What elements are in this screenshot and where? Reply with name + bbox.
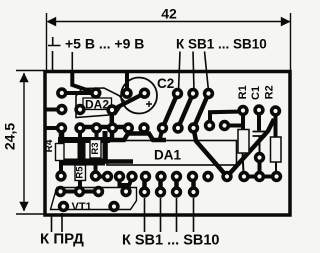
DA2 outline <box>76 88 125 118</box>
trace D2-D3 bar <box>96 175 108 179</box>
trace R2 bottom lead <box>275 162 277 172</box>
dimension 42 right arrowhead <box>281 17 291 27</box>
pad C1 top <box>253 104 264 115</box>
pad E9 <box>188 186 199 197</box>
trace A1-A2 <box>62 91 96 95</box>
trace row C bus <box>80 125 128 130</box>
pad F2 <box>108 201 119 212</box>
pad D10 <box>202 171 213 182</box>
pad holes <box>58 91 278 209</box>
stub R3 to pad <box>94 160 98 172</box>
dimension 24,5 top arrowhead <box>19 73 28 83</box>
trace C1 pad to row D <box>258 160 262 173</box>
trace B3 to C4 <box>110 110 115 127</box>
link bus1-bus2 <box>78 140 86 162</box>
SB bottom leader 4 <box>193 198 195 232</box>
extension line left <box>46 13 48 70</box>
trace DA1 top bus <box>104 134 166 141</box>
pad D1 <box>55 170 66 181</box>
svg-text:К ПРД: К ПРД <box>40 231 84 248</box>
pad C row 7 <box>157 122 168 133</box>
trace edge to B1 <box>46 108 62 112</box>
svg-text:C2: C2 <box>157 76 174 91</box>
pad C2 right <box>139 88 150 99</box>
dimension 24,5 line <box>23 73 25 211</box>
trace top edge to C2 left pad <box>125 72 129 93</box>
pad E3 <box>93 186 104 197</box>
trace C1 bottom lead <box>259 136 261 154</box>
svg-text:R2: R2 <box>263 85 275 99</box>
pad D3 <box>102 171 113 182</box>
+5V trace into board <box>72 70 96 93</box>
pad C row 1 <box>56 122 67 133</box>
pads <box>55 87 282 212</box>
SB leader 2 <box>193 52 194 92</box>
pad E6 <box>139 186 150 197</box>
pad D12 <box>238 171 249 182</box>
pad D6 <box>140 171 151 182</box>
svg-text:DA2: DA2 <box>85 97 109 111</box>
capacitor C2 circle <box>121 78 157 114</box>
resistor R4 outline <box>56 144 65 161</box>
trace C1 top lead <box>257 112 261 131</box>
svg-text:VT1: VT1 <box>72 201 92 213</box>
pad C row 2 <box>74 122 85 133</box>
trace inside DA1 <box>103 159 133 164</box>
pad D9 <box>187 171 198 182</box>
pad E1 <box>55 186 66 197</box>
extension line bottom <box>16 213 44 215</box>
SB bottom leader 2 <box>160 198 162 232</box>
svg-text:R1: R1 <box>237 85 249 99</box>
common wire symbol <box>48 37 61 46</box>
dumbbell 4 <box>191 177 196 193</box>
dumbbell 1 <box>142 177 147 193</box>
pad D2 <box>90 170 101 181</box>
common wire leader <box>52 51 54 71</box>
trace S route D4 to E5 <box>120 177 127 192</box>
svg-text:R4: R4 <box>44 139 55 152</box>
pad D13 <box>254 171 265 182</box>
pad A2 <box>90 87 101 98</box>
C2 plus mark <box>146 101 152 107</box>
pad E7 <box>155 186 166 197</box>
pad C row 10 <box>204 120 215 131</box>
SB leader 3 <box>205 52 209 92</box>
pad C1 mid <box>254 152 265 163</box>
stub bus2 to pad left <box>59 162 63 172</box>
trace bus1 <box>58 137 110 143</box>
pad D5 <box>126 171 137 182</box>
pad E8 <box>171 186 182 197</box>
pad C row 8 <box>172 122 183 133</box>
svg-text:R3: R3 <box>90 142 101 154</box>
pad C row 6 <box>138 122 149 133</box>
transistor VT1 outline <box>51 188 137 210</box>
pad C row 4 <box>107 122 118 133</box>
+5V leader <box>71 52 73 71</box>
dimension 42 left arrowhead <box>46 17 56 27</box>
pad C row 5 <box>123 122 134 133</box>
stub C4 down to DA1 bus <box>110 128 115 142</box>
pad E5 <box>120 186 131 197</box>
pad B3 <box>106 104 117 115</box>
trace big V diagonal left part <box>194 128 228 177</box>
resistor R1 outline <box>238 130 249 154</box>
stub pad to bus1 a <box>59 128 65 140</box>
pad D8 <box>171 171 182 182</box>
svg-text:C1: C1 <box>250 86 262 100</box>
PRD leader 1 <box>51 217 53 233</box>
svg-text:42: 42 <box>161 6 177 22</box>
dumbbell 3 <box>174 177 179 193</box>
pad SB b <box>187 88 198 99</box>
pad R1 top <box>237 105 248 116</box>
resistor R5 outline <box>75 165 86 181</box>
pad E2 <box>74 186 85 197</box>
pad A1 <box>56 87 67 98</box>
SB leader 1 <box>179 52 181 92</box>
dimension 42 line <box>48 21 290 23</box>
trace L to R1 top <box>210 112 243 126</box>
trace edge to row C pad <box>46 126 62 130</box>
pad D11 <box>221 171 232 182</box>
pad C row 9 <box>188 122 199 133</box>
pad B2 <box>74 104 85 115</box>
pad C2 left <box>121 88 132 99</box>
trace SB diagonal 2 <box>178 94 193 129</box>
svg-text:DA1: DA1 <box>154 148 181 163</box>
SB bottom leader 3 <box>176 198 178 232</box>
svg-text:К SB1 ... SB10: К SB1 ... SB10 <box>176 37 267 52</box>
pad SB a <box>172 88 183 99</box>
pad D7 <box>155 171 166 182</box>
link E5 to D5 <box>127 179 132 192</box>
svg-text:+5 В ... +9 В: +5 В ... +9 В <box>65 36 144 52</box>
pad SB c <box>203 88 214 99</box>
svg-text:К SB1 ... SB10: К SB1 ... SB10 <box>122 233 220 249</box>
stub R5 bottom <box>78 181 82 189</box>
trace R2 top lead <box>274 113 278 137</box>
DA2 label box <box>83 98 112 110</box>
trace R1 top lead <box>241 112 245 130</box>
pad R2 top <box>270 105 281 116</box>
DA1 outline <box>107 141 237 166</box>
trace bus2 <box>59 159 105 166</box>
extension line top <box>16 70 44 72</box>
pad B1 <box>56 104 67 115</box>
svg-text:R5: R5 <box>75 166 86 179</box>
resistor R2 outline <box>271 137 282 162</box>
extension line right <box>290 13 292 70</box>
dumbbell 2 <box>158 177 163 193</box>
trace R1 bottom lead <box>243 153 244 173</box>
trace SB diagonal 3 <box>194 94 209 129</box>
capacitor C1 plates <box>253 132 267 137</box>
pad F1 <box>58 201 69 212</box>
pad D4 <box>114 171 125 182</box>
svg-text:24,5: 24,5 <box>2 123 18 150</box>
resistor R3 outline <box>90 140 101 159</box>
dimension 24,5 bottom arrowhead <box>19 202 28 212</box>
stub to pad 161 <box>160 128 163 139</box>
trace C2 right pad diagonal <box>112 93 145 110</box>
stub pad to bus1 c <box>95 128 99 140</box>
pad C row 3 <box>91 122 102 133</box>
trace big V diagonal right part <box>227 119 274 177</box>
pad D14 <box>271 171 282 182</box>
SB bottom leader 1 <box>144 198 146 232</box>
stub pad to bus1 b <box>78 128 82 140</box>
trace bar pads right row D <box>244 175 277 179</box>
trace trio bar row E <box>61 190 101 194</box>
pad C row 11 <box>219 120 230 131</box>
link bus1 right vertical <box>103 131 108 162</box>
PRD leader 2 <box>61 213 63 232</box>
trace SB diagonal 1 <box>163 94 178 129</box>
board outline <box>45 72 290 216</box>
trace C11 to R1 lead <box>225 124 245 128</box>
